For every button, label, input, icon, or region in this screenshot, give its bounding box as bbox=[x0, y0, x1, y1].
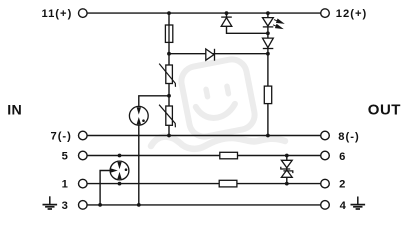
diode D1 bbox=[206, 49, 215, 61]
wire GDT2 ground electrode bbox=[100, 171, 110, 205]
varistor V1 bbox=[159, 64, 175, 87]
fuse F1 bbox=[165, 25, 172, 42]
watermark eye right bbox=[224, 83, 232, 97]
resistor R1 bbox=[264, 86, 271, 104]
resistor R2 bbox=[220, 152, 238, 159]
terminal 11 bbox=[79, 9, 88, 18]
wire branch to D1 bbox=[169, 53, 268, 55]
wire 7-8 bbox=[87, 135, 321, 137]
wire 5-6 bbox=[87, 155, 321, 157]
wire 3-4 bbox=[87, 204, 321, 206]
LED L2 bbox=[263, 38, 274, 48]
gas discharge tube G1 bbox=[129, 106, 148, 125]
junction varistor-line7 bbox=[167, 134, 171, 138]
terminal 3 bbox=[79, 201, 88, 210]
TVS suppressor D3 bbox=[280, 160, 293, 177]
junction GDT2-line1 bbox=[118, 182, 122, 186]
svg-text:8(-): 8(-) bbox=[338, 131, 359, 143]
junction TVS-line6 bbox=[285, 154, 289, 158]
terminal 1 bbox=[79, 179, 88, 188]
resistor R3 bbox=[219, 180, 237, 187]
wire TVS column bbox=[286, 156, 288, 184]
junction R1-line8 bbox=[266, 134, 270, 138]
diode D2 bbox=[221, 17, 232, 26]
junction varistor-GDT1 bbox=[167, 94, 171, 98]
svg-text:4: 4 bbox=[340, 200, 347, 212]
junction TVS-line2 bbox=[285, 182, 289, 186]
terminal 7 bbox=[79, 131, 88, 140]
wire GDT1 branch bbox=[139, 96, 169, 205]
junction top-D2 bbox=[225, 11, 229, 15]
terminal 4 bbox=[321, 201, 330, 210]
terminal 8 bbox=[321, 131, 330, 140]
ground left bbox=[43, 196, 58, 209]
junction top-LED bbox=[266, 11, 270, 15]
terminal 6 bbox=[321, 151, 330, 160]
wire top 11-12 bbox=[87, 12, 321, 14]
terminal 12 bbox=[321, 9, 330, 18]
svg-text:6: 6 bbox=[339, 151, 345, 163]
terminal 5 bbox=[79, 151, 88, 160]
junction GDT1-line3 bbox=[137, 203, 141, 207]
junction top-fuse bbox=[167, 11, 171, 15]
terminal 2 bbox=[321, 179, 330, 188]
svg-text:11(+): 11(+) bbox=[41, 8, 72, 20]
junction LED-D1 bbox=[266, 52, 270, 56]
svg-text:IN: IN bbox=[7, 102, 22, 118]
wire LED column bbox=[267, 13, 269, 135]
svg-text:1: 1 bbox=[62, 179, 68, 191]
watermark eye left bbox=[203, 86, 211, 100]
watermark logo rounded square bbox=[179, 57, 257, 139]
svg-text:7(-): 7(-) bbox=[50, 130, 71, 142]
svg-text:OUT: OUT bbox=[368, 101, 401, 118]
junction fuse-branch bbox=[167, 52, 171, 56]
svg-text:5: 5 bbox=[62, 150, 68, 162]
watermark wave swoosh bbox=[151, 137, 285, 149]
junction LED mid bbox=[266, 31, 270, 35]
junction GDT2gnd-line3 bbox=[98, 203, 102, 207]
svg-text:12(+): 12(+) bbox=[336, 8, 367, 20]
junction GDT2-line5 bbox=[118, 154, 122, 158]
LED L1 bbox=[263, 18, 274, 27]
svg-text:3: 3 bbox=[62, 200, 68, 212]
wire D2 branch bbox=[227, 13, 268, 33]
LED L1 light arrows bbox=[273, 19, 283, 28]
gas discharge tube G2 bbox=[110, 161, 129, 180]
wire 1-2 bbox=[87, 183, 321, 185]
ground right bbox=[351, 197, 366, 210]
svg-text:2: 2 bbox=[339, 179, 345, 191]
wire fuse-varistor column bbox=[168, 13, 170, 135]
varistor V2 bbox=[159, 105, 175, 128]
watermark smile bbox=[196, 99, 237, 121]
